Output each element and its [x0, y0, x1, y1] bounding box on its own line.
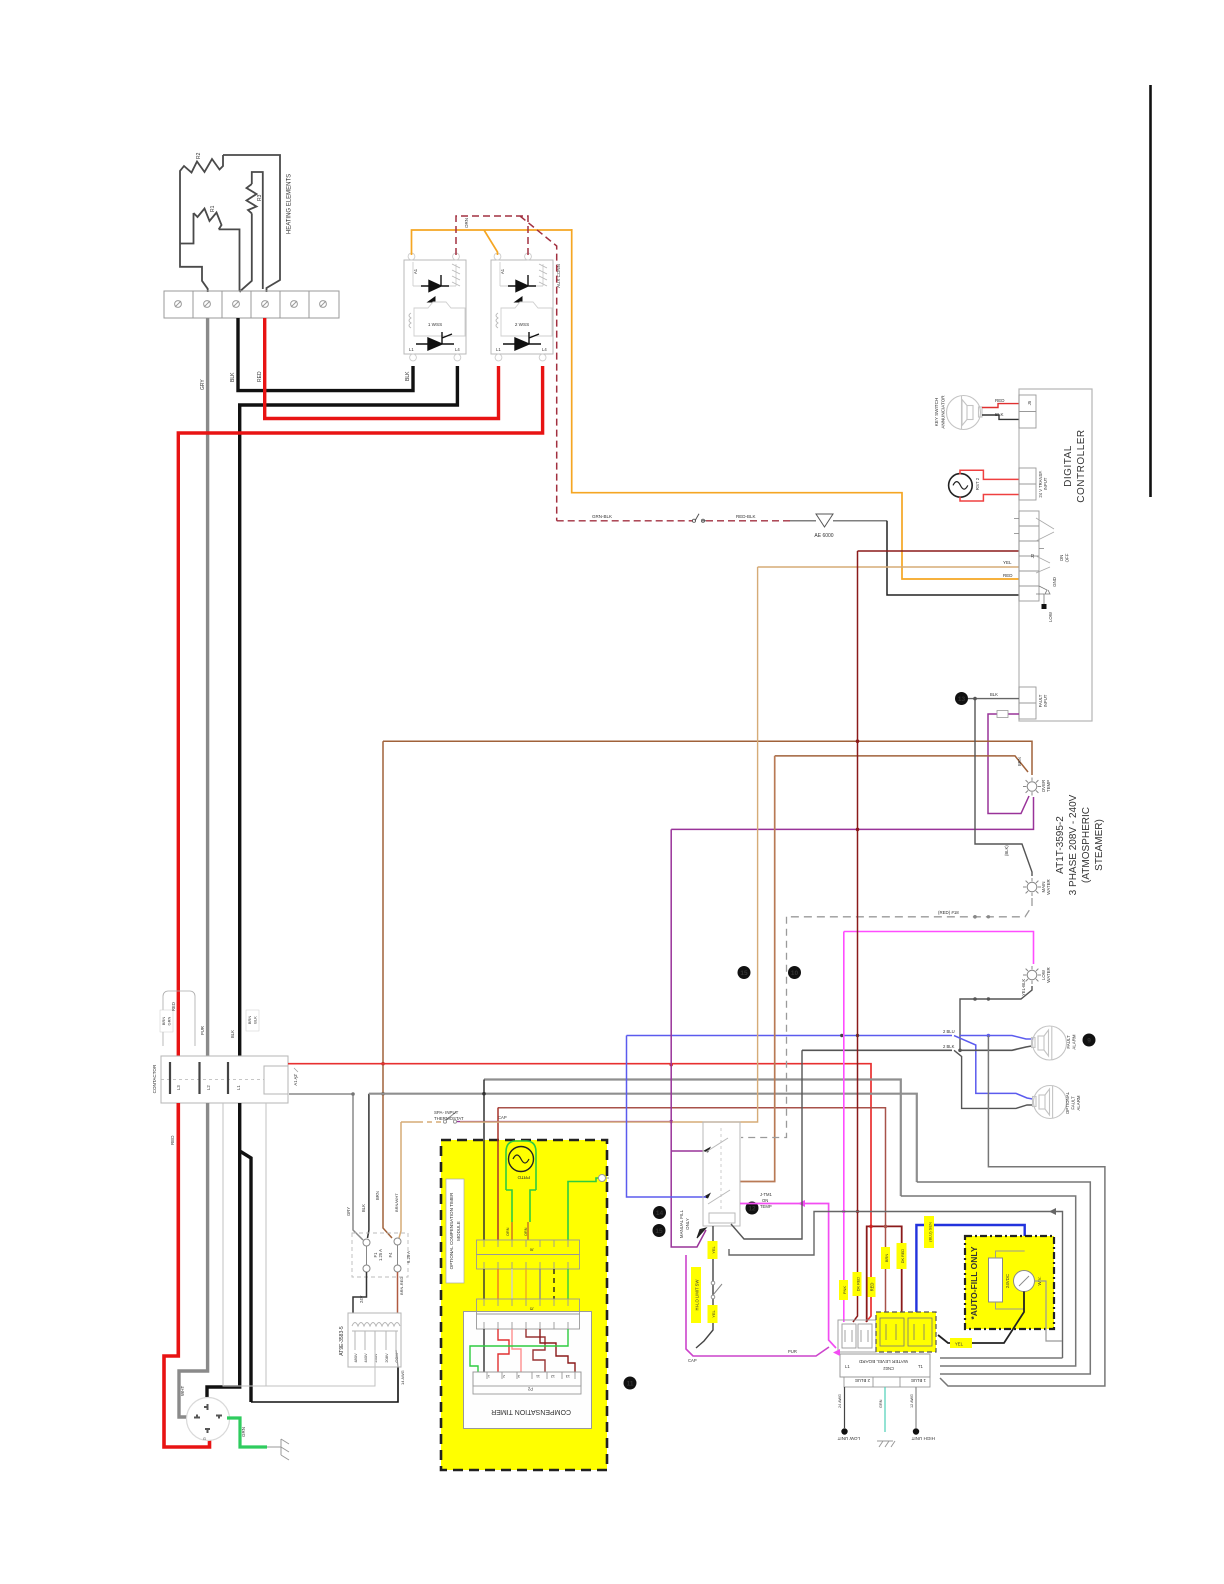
label BRN tag: [881, 1247, 890, 1269]
wire dk-red controller pin3: [858, 550, 1020, 552]
wire red ac source to J4: [960, 470, 1019, 501]
wire black relay to alarm bus: [731, 1050, 802, 1239]
wire orange coil feed: [412, 229, 572, 255]
power plug receptacle: [187, 1398, 230, 1441]
contactor module 2 WSS: [491, 253, 553, 361]
note marker 10: [788, 966, 801, 979]
svg-text:24V: 24V: [359, 1295, 364, 1303]
svg-text:J-TM1: J-TM1: [760, 1192, 773, 1197]
contactor pole L3: [169, 1062, 171, 1094]
svg-text:HI-LO LIMIT SW: HI-LO LIMIT SW: [695, 1280, 700, 1311]
wire black buzzer: [982, 415, 1019, 419]
heating element R1: [180, 209, 222, 244]
svg-text:YEL: YEL: [711, 1309, 716, 1317]
note marker 11: [624, 1377, 637, 1390]
note marker 9: [1083, 1034, 1096, 1047]
wire black contactor down to plug: [207, 1103, 251, 1402]
probe high: [915, 1387, 917, 1428]
svg-text:*AUTO-FILL ONLY: *AUTO-FILL ONLY: [969, 1246, 979, 1319]
svg-text:(BLU) SEN: (BLU) SEN: [928, 1222, 933, 1242]
module strip P5: [477, 1299, 580, 1329]
svg-text:RED: RED: [870, 1283, 875, 1292]
svg-text:2 BLUE: 2 BLUE: [855, 1378, 870, 1383]
wire gray bus G1: [484, 1080, 901, 1197]
svg-text:OFF: OFF: [1065, 553, 1070, 562]
wire tan sensor vertical: [460, 567, 758, 1122]
air switch triangle AE 6000: [790, 520, 887, 522]
svg-text:AT9E-3583-5: AT9E-3583-5: [339, 1326, 345, 1356]
svg-text:GND: GND: [1052, 577, 1057, 587]
svg-text:A1: A1: [500, 268, 505, 274]
svg-text:BRN: BRN: [161, 1017, 166, 1026]
ground chassis symbol: [267, 1439, 289, 1460]
svg-text:GRN: GRN: [167, 1016, 172, 1025]
wire gray bus G2: [369, 1094, 917, 1182]
wire green plug to ground: [227, 1418, 267, 1447]
wire maroon controller to board: [853, 551, 858, 1322]
svg-text:BRN/WHT: BRN/WHT: [394, 1193, 399, 1212]
solenoid resistor: [989, 1258, 1003, 1302]
wire tan to fuse F4: [399, 1122, 401, 1238]
wire dashed continues: [706, 520, 790, 522]
label BLU tag: [924, 1216, 934, 1248]
module strip P1: [477, 1240, 580, 1269]
svg-text:BLK: BLK: [995, 412, 1004, 417]
wire black hi-lo limit: [696, 1226, 713, 1348]
green RTD envelope: [506, 1141, 536, 1222]
wire brown thermostat B: [775, 756, 1028, 772]
fuse box: [352, 1233, 408, 1277]
label AT1T block: [1055, 794, 1105, 895]
label RED tag: [867, 1277, 876, 1297]
svg-text:1 WSS: 1 WSS: [428, 322, 442, 327]
svg-text:WHT: WHT: [180, 1386, 185, 1396]
note marker 12: [746, 1202, 759, 1215]
svg-text:BRN: BRN: [884, 1254, 889, 1263]
ring terminal: [599, 1175, 606, 1182]
connector J4: [1019, 468, 1036, 500]
note marker 13: [955, 692, 968, 705]
svg-text:L1: L1: [496, 347, 501, 352]
svg-text:CONTROLLER: CONTROLLER: [1076, 429, 1087, 502]
wire pink lamp3 feed: [844, 932, 1034, 965]
svg-text:RST 2: RST 2: [975, 477, 980, 490]
gray nested return B: [917, 1182, 1091, 1374]
junction arrow gray: [1049, 1208, 1056, 1215]
wire brown thermostat A: [383, 741, 1032, 775]
P2 pin numbers: [488, 1374, 570, 1378]
svg-text:PRTD: PRTD: [517, 1175, 530, 1180]
label DK RED tag: [853, 1272, 862, 1296]
wire purple lamp-relay vertical: [671, 829, 706, 1247]
compensation timer box: [464, 1312, 592, 1429]
svg-text:BLK: BLK: [230, 1030, 235, 1038]
transformer AT9E-3583-5: [348, 1313, 401, 1367]
svg-text:440V: 440V: [363, 1353, 368, 1363]
svg-text:CAP: CAP: [498, 1115, 507, 1120]
svg-text:J5: J5: [1027, 400, 1032, 405]
svg-text:FAULT: FAULT: [1071, 1096, 1076, 1110]
wire purple lamp bus: [671, 797, 1033, 829]
svg-text:24 AWG: 24 AWG: [838, 1394, 842, 1408]
svg-text:YEL: YEL: [955, 1342, 964, 1347]
svg-text:A1: A1: [413, 268, 418, 274]
svg-text:P2: P2: [527, 1387, 533, 1392]
svg-text:AE 6000: AE 6000: [814, 533, 833, 539]
gray nested return C: [901, 1196, 1076, 1366]
svg-text:L4: L4: [542, 347, 547, 352]
svg-text:BRN: BRN: [375, 1191, 380, 1200]
note marker 15b: [653, 1224, 666, 1237]
svg-text:BRN: BRN: [247, 1016, 252, 1025]
svg-text:13: 13: [958, 696, 966, 703]
svg-text:L1: L1: [236, 1085, 241, 1090]
contactor main box: [161, 1056, 288, 1103]
page rule line: [1149, 85, 1152, 497]
wire brown-red bus: [498, 1108, 886, 1318]
svg-text:480V: 480V: [353, 1353, 358, 1363]
wire black to controller pin1: [887, 521, 1019, 595]
label PNK tag: [839, 1280, 848, 1300]
svg-text:ON: ON: [762, 1198, 768, 1203]
svg-text:INPUT: INPUT: [1043, 477, 1048, 490]
svg-text:GRN-BLK: GRN-BLK: [592, 514, 612, 519]
timer jumper wires: [470, 1329, 575, 1372]
svg-text:(RED) #18: (RED) #18: [938, 910, 959, 915]
svg-text:J2: J2: [1030, 553, 1035, 558]
svg-text:GRY: GRY: [200, 379, 206, 390]
lamp OVER TEMP: [1023, 778, 1041, 796]
gray nested return D end: [940, 1357, 1063, 1359]
digital controller box: [1019, 389, 1092, 721]
contactor coil box: [264, 1066, 288, 1094]
probe ground: [884, 1387, 886, 1432]
svg-text:24VDC: 24VDC: [1005, 1274, 1010, 1288]
wire purple sensor run: [457, 1121, 671, 1123]
wire brown F4 to transformer: [397, 1272, 399, 1313]
wire red contactor2 return: [178, 366, 542, 1056]
wire red main bus: [288, 1064, 871, 1322]
wire brown relay feed: [740, 756, 775, 1182]
svg-text:RED: RED: [1003, 573, 1013, 578]
wire black relay limit stub: [729, 1212, 1063, 1359]
svg-text:BLK: BLK: [361, 1204, 366, 1212]
solenoid internal ties: [996, 1251, 1025, 1309]
coil return loop light: [223, 1103, 375, 1386]
junction dots buses: [670, 1034, 860, 1213]
svg-text:(ATMOSPHERIC: (ATMOSPHERIC: [1081, 807, 1092, 883]
svg-text:YEL-BLK: YEL-BLK: [1021, 979, 1026, 996]
wire purple fault loop: [988, 714, 1029, 814]
connector J1: [1019, 395, 1036, 428]
note marker 14: [653, 1206, 666, 1219]
horn OPTIONAL FAULT ALARM: [1033, 1086, 1067, 1119]
svg-text:GRY: GRY: [346, 1207, 351, 1216]
connector J3 fault: [1019, 687, 1036, 719]
transformer tap labels: [353, 1353, 399, 1363]
svg-text:L2: L2: [206, 1085, 211, 1090]
module yellow box: [441, 1140, 607, 1470]
svg-text:STEAMER): STEAMER): [1094, 819, 1105, 871]
RTD sensor: [509, 1147, 534, 1172]
fuse F4: [394, 1238, 401, 1272]
svg-text:2: 2: [503, 1374, 505, 1378]
svg-text:FAULT: FAULT: [1066, 1035, 1071, 1049]
water level board: [840, 1354, 930, 1377]
svg-text:BRN: BRN: [1017, 757, 1022, 766]
svg-text:WATER LEVEL BOARD: WATER LEVEL BOARD: [858, 1359, 908, 1364]
svg-text:COMPENSATION TIMER: COMPENSATION TIMER: [491, 1408, 571, 1415]
svg-text:ANNUNCIATOR: ANNUNCIATOR: [941, 395, 946, 429]
probe low: [844, 1387, 846, 1428]
on off bracket: [1036, 518, 1054, 573]
svg-text:12: 12: [748, 1206, 756, 1213]
svg-text:SPA- INPUT: SPA- INPUT: [434, 1110, 459, 1115]
svg-text:GRN: GRN: [241, 1427, 246, 1437]
svg-text:2 BLU: 2 BLU: [943, 1029, 955, 1034]
svg-text:6.25 A: 6.25 A: [406, 1251, 411, 1263]
wire dk-red module feed: [497, 1108, 499, 1240]
door switch contact: [695, 514, 706, 521]
fuse F1: [363, 1239, 370, 1272]
svg-text:L1: L1: [845, 1364, 850, 1369]
svg-text:11: 11: [536, 1374, 540, 1378]
svg-text:(BLK): (BLK): [1004, 845, 1009, 856]
wire black to transformer COM: [251, 1367, 398, 1402]
svg-text:10: 10: [791, 970, 799, 977]
magenta board arrow: [833, 1349, 840, 1356]
water level board connector yellow: [876, 1312, 936, 1352]
svg-text:12 AWG: 12 AWG: [910, 1394, 914, 1408]
heating element outline: [180, 155, 280, 292]
label OPTIONAL COMPENSATION TIMER MODULE: [446, 1179, 464, 1283]
lamp LOW WATER: [1023, 966, 1041, 984]
wire black lamp2 feed: [975, 699, 1032, 876]
svg-text:14: 14: [656, 1210, 664, 1217]
svg-text:OPTIONAL: OPTIONAL: [1065, 1091, 1070, 1114]
wire tag box A: [163, 991, 195, 1046]
svg-text:DK RED: DK RED: [901, 1249, 905, 1264]
svg-text:RED: RED: [995, 398, 1005, 403]
contactor pole L2: [198, 1062, 200, 1094]
wire pink sensor to board: [843, 932, 845, 1323]
wire black valve return: [938, 1292, 1024, 1344]
svg-text:ALARM: ALARM: [1072, 1034, 1077, 1049]
timer connector P2: [473, 1372, 581, 1394]
junction dots maroon: [856, 739, 860, 743]
relay pin arrows: [703, 1147, 711, 1153]
green chassis wire: [568, 1178, 599, 1240]
svg-text:KEY SWITCH: KEY SWITCH: [934, 398, 939, 427]
svg-text:TEMP: TEMP: [1046, 780, 1051, 792]
auto-fill only box: [965, 1236, 1054, 1329]
svg-text:L1: L1: [409, 347, 414, 352]
horn FAULT ALARM: [1032, 1026, 1067, 1060]
gray nested return A: [940, 1036, 1105, 1387]
svg-text:OPTIONAL COMPENSATION TIMER: OPTIONAL COMPENSATION TIMER: [449, 1192, 454, 1269]
svg-text:14 AWG: 14 AWG: [400, 1370, 405, 1385]
junction arrow magenta: [798, 1200, 805, 1207]
heating element R3: [241, 172, 263, 291]
wire red L1 terminal drop: [265, 318, 499, 419]
connector J2: [1019, 511, 1039, 601]
label YEL tag lower: [708, 1305, 718, 1323]
wire gray L3 from terminal to contactor: [206, 318, 209, 1056]
wire black module feed: [483, 1080, 485, 1241]
svg-text:G: G: [203, 1437, 206, 1441]
svg-text:ORN: ORN: [524, 1227, 528, 1236]
svg-text:GRN: GRN: [879, 1399, 883, 1408]
svg-text:LOW UNIT: LOW UNIT: [837, 1436, 860, 1441]
svg-text:12: 12: [551, 1374, 555, 1378]
probe strip: [844, 1377, 930, 1387]
svg-text:R1: R1: [210, 205, 216, 212]
wire gray to fuse F1: [289, 1094, 363, 1240]
transformer ac source symbol: [949, 474, 973, 498]
svg-text:YEL: YEL: [1003, 560, 1012, 565]
blue sensor loop: [916, 1225, 1024, 1312]
svg-text:ORN: ORN: [506, 1227, 510, 1236]
svg-text:MODULE: MODULE: [456, 1221, 461, 1241]
label YEL tag upper: [708, 1241, 718, 1259]
J2 pin stubs: [1014, 519, 1044, 549]
svg-text:CN02: CN02: [883, 1366, 894, 1371]
label HI-LO LIMIT SW: [691, 1267, 701, 1323]
relay coil arrow: [697, 1228, 706, 1238]
svg-text:BLK: BLK: [230, 372, 236, 382]
svg-text:WATER: WATER: [1046, 967, 1051, 982]
svg-text:2 WSS: 2 WSS: [515, 322, 529, 327]
svg-text:BRN-RED: BRN-RED: [399, 1277, 404, 1295]
svg-text:F4: F4: [388, 1252, 393, 1258]
wire black horn2 branch: [954, 1050, 1033, 1108]
label J-TM1 ON TEMP: [760, 1192, 773, 1209]
svg-text:L3: L3: [176, 1085, 181, 1090]
wire gray contactor down to plug: [179, 1103, 208, 1417]
svg-text:L4: L4: [455, 347, 460, 352]
heating element R2: [180, 155, 223, 183]
svg-text:2 BLK: 2 BLK: [943, 1044, 955, 1049]
svg-text:R3: R3: [257, 194, 263, 201]
svg-text:MANUAL FILL: MANUAL FILL: [679, 1209, 684, 1238]
inter-strip wires: [484, 1269, 568, 1299]
label YEL tag: [950, 1338, 972, 1348]
svg-text:15: 15: [655, 1228, 663, 1235]
svg-text:RED-BLK: RED-BLK: [736, 514, 756, 519]
svg-text:13: 13: [566, 1374, 570, 1378]
wire black to fuse F1: [368, 1094, 369, 1238]
svg-text:BLK: BLK: [990, 692, 998, 697]
svg-text:RED: RED: [257, 371, 263, 382]
wire gray fault input: [968, 698, 1019, 700]
svg-text:TEMP: TEMP: [760, 1204, 772, 1209]
relay box: [703, 1122, 740, 1226]
contactor module 1 WSS: [404, 253, 466, 361]
svg-text:15: 15: [740, 970, 748, 977]
svg-text:R2: R2: [196, 152, 202, 159]
svg-text:DIGITAL: DIGITAL: [1063, 445, 1074, 487]
svg-text:RED: RED: [170, 1135, 175, 1145]
wire dashed gray relay feed: [741, 917, 787, 1138]
wire black alarm bus: [802, 1046, 1032, 1050]
hi-lo limit switch: [711, 1281, 715, 1285]
svg-text:CONTACTOR: CONTACTOR: [152, 1064, 157, 1093]
lamp READY: [1023, 878, 1041, 896]
svg-text:BLK: BLK: [405, 371, 411, 381]
svg-text:RED: RED: [171, 1002, 176, 1011]
svg-text:YEL: YEL: [711, 1245, 716, 1253]
buzzer key switch annunciator: [947, 396, 983, 430]
svg-text:HEATING ELEMENTS: HEATING ELEMENTS: [287, 174, 293, 234]
low stub: [1036, 594, 1044, 604]
wire gray COM drop: [396, 1350, 398, 1367]
svg-text:ON: ON: [1059, 555, 1064, 562]
svg-text:1.25 A: 1.25 A: [378, 1249, 383, 1261]
svg-text:PUR: PUR: [788, 1349, 797, 1354]
terminal strip TB1: [164, 291, 339, 318]
wire tag box B: [246, 1010, 259, 1031]
svg-text:INPUT: INPUT: [1043, 694, 1048, 707]
svg-text:ORN: ORN: [464, 218, 469, 228]
svg-text:9: 9: [1087, 1038, 1091, 1045]
svg-text:PUR: PUR: [200, 1026, 205, 1035]
svg-text:HIGH UNIT: HIGH UNIT: [911, 1436, 935, 1441]
svg-text:ONLY: ONLY: [685, 1218, 690, 1230]
svg-text:WATER: WATER: [1046, 879, 1051, 894]
label BRN GRN: [160, 1010, 173, 1032]
wire dashed door-interlock run: [557, 520, 693, 522]
RTD lead orn tags: [512, 1222, 528, 1240]
wire dashed maroon coil link: [456, 216, 557, 521]
wire black lamp3 return: [960, 986, 1032, 1050]
wire blue alarm bus: [627, 1036, 1033, 1040]
svg-text:1 BLUE: 1 BLUE: [911, 1378, 926, 1383]
svg-text:BLK: BLK: [253, 1016, 258, 1024]
svg-text:ALARM: ALARM: [1076, 1095, 1081, 1110]
svg-text:1: 1: [488, 1374, 490, 1378]
svg-text:THERMOSTAT: THERMOSTAT: [434, 1116, 464, 1121]
svg-text:T1: T1: [918, 1364, 924, 1369]
junction dots jumper: [869, 1225, 873, 1229]
svg-text:AT1T-3595-2: AT1T-3595-2: [1055, 816, 1066, 874]
wire orange to door circuit: [572, 229, 1019, 579]
wire gray 240V tap return: [374, 1350, 376, 1369]
svg-text:DK RED: DK RED: [857, 1277, 861, 1292]
label DK RED tag: [897, 1243, 907, 1269]
maroon jumper loop: [867, 1226, 902, 1322]
svg-text:CAP: CAP: [688, 1358, 697, 1363]
inline connector on purple: [997, 711, 1008, 718]
svg-text:PNK: PNK: [842, 1286, 847, 1295]
wire red buzzer: [982, 404, 1019, 408]
wire brown to fuse F4: [383, 741, 392, 1238]
svg-text:3: 3: [518, 1374, 520, 1378]
wire red contactor down to plug: [164, 1103, 210, 1447]
wire tan controller pin: [758, 566, 1019, 568]
wire gray valve aux: [1035, 1281, 1063, 1341]
wire black F1 to transformer 24V: [353, 1272, 367, 1313]
svg-text:3 PHASE 208V - 240V: 3 PHASE 208V - 240V: [1068, 794, 1079, 895]
wire dashed gray lamp2 return: [787, 898, 1033, 917]
solenoid valve circle: [1014, 1271, 1035, 1292]
water level board connector white: [838, 1320, 876, 1352]
wire blue relay feed: [627, 1036, 707, 1198]
wire purple manual fill to board: [686, 1255, 829, 1356]
wire blue horn2 branch: [954, 1036, 1033, 1100]
svg-text:LOW: LOW: [1048, 611, 1053, 622]
contactor pole L1: [227, 1062, 229, 1094]
wire black L2 terminal drop: [238, 318, 413, 391]
